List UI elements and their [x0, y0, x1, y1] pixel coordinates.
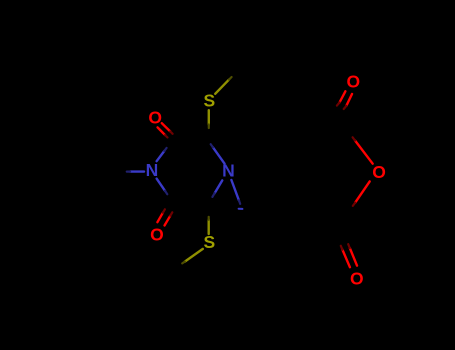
svg-text:S: S [203, 232, 215, 252]
svg-text:O: O [150, 225, 164, 245]
svg-text:O: O [350, 268, 364, 288]
svg-text:S: S [204, 91, 216, 111]
svg-text:O: O [148, 108, 162, 128]
svg-text:N: N [146, 160, 159, 180]
svg-text:N: N [222, 160, 235, 180]
svg-text:O: O [346, 72, 360, 92]
svg-text:O: O [372, 162, 386, 182]
